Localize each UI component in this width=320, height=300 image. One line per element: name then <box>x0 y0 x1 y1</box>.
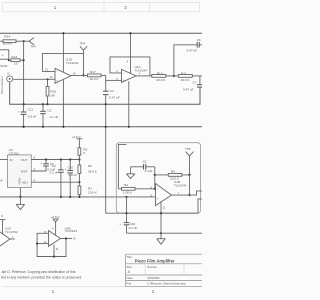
svg-text:R4: R4 <box>124 183 128 187</box>
wire: U1B output to right edge <box>172 191 203 195</box>
wire: bias column x=23.6 from 41.2 down to C11 <box>23 41 25 112</box>
op-amp U1A <box>116 65 147 83</box>
wire: mid rail (ground return) y=104.2 <box>10 82 200 104</box>
svg-text:0.47 uF: 0.47 uF <box>183 87 194 91</box>
svg-text:+2.5 V: +2.5 V <box>72 135 82 139</box>
power +2.5V at R3 <box>72 135 83 148</box>
node: bias column junction at R14 wire <box>23 40 25 42</box>
svg-text:Piezo Film Amplifier: Piezo Film Amplifier <box>135 258 175 263</box>
svg-text:+: + <box>50 243 52 247</box>
svg-text:1.00 K: 1.00 K <box>123 190 133 194</box>
wire: U2D + input <box>37 243 48 245</box>
svg-text:6.8 uF: 6.8 uF <box>68 173 77 177</box>
wire: +2.5V reference rail y=196.9 <box>0 196 127 198</box>
node: R10/R11 junction <box>173 75 175 77</box>
svg-text:C7: C7 <box>193 80 197 84</box>
wire: piezo signal to U1D + input <box>13 78 55 80</box>
wire: U1A output <box>136 75 152 77</box>
node: R16 tap <box>46 78 48 80</box>
svg-text:0.47 uF: 0.47 uF <box>109 95 120 99</box>
svg-text:-: - <box>157 187 158 191</box>
sheet border frame <box>3 2 200 286</box>
resistor R10 <box>152 71 179 82</box>
svg-text:6.8 uF: 6.8 uF <box>28 114 37 118</box>
svg-text:Date:: Date: <box>127 276 134 280</box>
svg-text:C1: C1 <box>143 160 147 164</box>
ground symbol below U3 <box>16 197 24 210</box>
svg-text:LT1761: LT1761 <box>9 151 20 155</box>
wire: U1A feedback loop <box>110 57 150 76</box>
svg-text:ale D. Peterson. Copying and: ale D. Peterson. Copying and distributio… <box>2 270 76 274</box>
svg-text:-: - <box>123 71 124 75</box>
connector C-box (clipped at left edge) <box>0 50 9 68</box>
capacitor C11 <box>18 108 36 127</box>
svg-text:0.1 uF: 0.1 uF <box>129 226 138 230</box>
svg-text:Title:: Title: <box>127 255 133 259</box>
wire: bottom reference wire under box <box>106 199 202 213</box>
svg-text:Piezo Sensor: Piezo Sensor <box>0 76 4 94</box>
svg-text:0.47 uF: 0.47 uF <box>187 49 198 53</box>
capacitor C8 <box>40 160 55 172</box>
svg-text:1M: 1M <box>50 94 55 98</box>
svg-text:C10: C10 <box>68 165 74 169</box>
resistor R5 <box>155 169 190 180</box>
svg-text:0.1 uF: 0.1 uF <box>50 115 59 119</box>
wire: branch to U1A non-inverting input <box>106 79 122 81</box>
svg-text:ADJ: ADJ <box>22 181 28 185</box>
svg-text:TLV2244: TLV2244 <box>65 229 78 233</box>
svg-text:<: < <box>2 53 4 57</box>
wire: U3 IN from left edge <box>0 159 8 161</box>
resistor R16 1M <box>46 79 56 104</box>
op-amp U1D <box>45 58 79 84</box>
svg-text:R13: R13 <box>11 55 17 59</box>
svg-text:+: + <box>56 79 58 83</box>
svg-text:TP5: TP5 <box>185 147 191 151</box>
capacitor C13 <box>119 213 137 233</box>
svg-text:-: - <box>56 70 57 74</box>
resistor R11 <box>178 71 202 82</box>
wire: inverting node up leg <box>154 167 156 189</box>
svg-text:ted in any medium, provided th: ted in any medium, provided the notice i… <box>1 275 82 279</box>
wire: top feedback/reference rail y=33.2 <box>0 32 202 34</box>
svg-text:TP4: TP4 <box>80 42 86 46</box>
svg-text:0.1uF: 0.1uF <box>145 169 153 173</box>
title block texts <box>127 255 187 285</box>
svg-text:V2244: V2244 <box>0 64 8 68</box>
node: +2.5V rail to U1B + input junction <box>125 196 127 198</box>
ground symbol inside box <box>126 167 134 179</box>
svg-text:1: 1 <box>152 289 155 294</box>
op-amp U2A (clipped at left edge) <box>0 226 18 250</box>
resistor R14 <box>0 34 24 45</box>
svg-text:TLV2244: TLV2244 <box>66 61 79 65</box>
resistor R2 <box>78 160 98 183</box>
svg-text:TLC2702: TLC2702 <box>5 230 18 234</box>
capacitor C3 <box>40 104 58 127</box>
wire: U1A pin11 stub down to lower rail <box>128 81 130 127</box>
wire: signal column x=105.7 down into filter box area <box>105 75 107 91</box>
svg-text:C9: C9 <box>52 164 56 168</box>
svg-text:R10: R10 <box>157 71 163 75</box>
title block <box>126 254 203 286</box>
wire: U1D pin11 stub down to lower rail <box>62 80 64 127</box>
svg-text:C6: C6 <box>197 38 201 42</box>
svg-text:C:\Phoenix\..Sheet1\Schematic: C:\Phoenix\..Sheet1\Schematic <box>147 281 186 285</box>
wire: lower long rail y=126.8 <box>0 126 202 128</box>
wire: U1A pin4 supply stub from top rail <box>130 33 132 73</box>
svg-text:GND: GND <box>18 177 22 185</box>
wire: U1D feedback loop <box>42 53 83 75</box>
test point TP6 <box>24 38 34 45</box>
svg-text:+: + <box>119 222 121 226</box>
svg-text:-: - <box>50 232 51 236</box>
wire: U3 GND stub <box>19 188 21 197</box>
wire: U3 OUT <box>31 159 80 161</box>
wire: U3 ADJ <box>31 181 79 183</box>
ground symbol below box <box>157 233 166 244</box>
op-amp U2D <box>44 226 78 246</box>
svg-text:20.0 K: 20.0 K <box>156 78 166 82</box>
wire: U3 BYP <box>31 166 46 171</box>
svg-text:3/29/2004: 3/29/2004 <box>147 276 160 280</box>
wire: U1D pin4 supply stub from top rail <box>62 33 64 72</box>
wire: U1B pin11 stub to ground run <box>160 203 162 234</box>
svg-text:R14: R14 <box>4 34 10 38</box>
ground stub below U2D <box>53 245 55 257</box>
capacitor C10 <box>65 160 77 197</box>
power stub U2A <box>0 214 6 234</box>
svg-text:TLV2244: TLV2244 <box>174 183 187 187</box>
capacitor C4 <box>103 89 120 99</box>
svg-text:56.0 K: 56.0 K <box>88 170 98 174</box>
svg-text:+: + <box>40 161 42 165</box>
svg-text:+: + <box>123 79 125 83</box>
svg-text:R5: R5 <box>171 169 175 173</box>
svg-text:+2.5 V: +2.5 V <box>51 215 61 219</box>
svg-text:20.0 K: 20.0 K <box>170 176 180 180</box>
node: U1D output junction <box>82 74 84 76</box>
svg-text:R2: R2 <box>88 164 92 168</box>
capacitor C9 <box>50 160 64 197</box>
wire: U2D feedback loop <box>37 233 66 256</box>
svg-text:20.0 K: 20.0 K <box>88 191 98 195</box>
svg-text:1: 1 <box>52 289 55 294</box>
resistor R3 <box>78 147 88 159</box>
svg-text:20.0 K: 20.0 K <box>181 78 191 82</box>
svg-text:0.1 uF: 0.1 uF <box>50 170 59 174</box>
svg-text:TLV2244: TLV2244 <box>135 69 148 73</box>
svg-text:C4: C4 <box>110 89 114 93</box>
wire: U2D output <box>61 238 73 240</box>
svg-text:+: + <box>18 110 20 114</box>
svg-text:C11: C11 <box>28 108 34 112</box>
svg-text:R11: R11 <box>181 71 187 75</box>
svg-text:20.0 K: 20.0 K <box>3 41 13 45</box>
resistor R4 <box>118 183 155 194</box>
output stage enclosure box <box>116 143 200 214</box>
test point TP5 <box>186 152 194 175</box>
svg-text:File:: File: <box>127 281 133 285</box>
power +2.5V at U2D <box>51 215 61 235</box>
op-amp U1B <box>151 180 187 206</box>
svg-text:20.0 K: 20.0 K <box>90 77 100 81</box>
node: R13 junction <box>8 59 10 61</box>
capacitor C1 <box>131 160 155 174</box>
svg-text:10: 10 <box>14 61 18 65</box>
svg-text:OUT: OUT <box>21 158 28 162</box>
wire: R4 series leg up to top of box loop <box>118 144 126 188</box>
svg-text:uF: uF <box>0 179 3 183</box>
svg-text:C3: C3 <box>47 109 51 113</box>
svg-text:TP6: TP6 <box>30 44 36 48</box>
node: inverting node column <box>154 188 156 190</box>
svg-text:Size:: Size: <box>127 265 133 269</box>
capacitor C7 <box>183 76 202 92</box>
capacitor C6 <box>187 38 202 52</box>
wire: junction down to bottom wire <box>126 197 128 213</box>
resistor R13 <box>9 55 24 66</box>
svg-text:Number: Number <box>147 265 157 269</box>
svg-text:R17: R17 <box>90 70 96 74</box>
wire: feedback down to output <box>189 175 191 195</box>
regulator U3 <box>8 148 32 187</box>
test point TP4 on U1D feedback <box>80 46 87 53</box>
wire: C13 ground run to right edge <box>127 232 203 234</box>
svg-text:0: 0 <box>83 151 85 155</box>
svg-text:BYP: BYP <box>21 169 27 173</box>
svg-text:+: + <box>157 197 159 201</box>
connector J1 piezo sensor <box>0 72 13 94</box>
svg-text:IN: IN <box>10 158 13 162</box>
wire: U1B non-inverting input <box>127 196 156 198</box>
resistor R1 <box>78 182 98 197</box>
resistor R17 <box>71 70 106 81</box>
wire: feedback cap branch up from R10/R11 junction <box>174 45 197 76</box>
